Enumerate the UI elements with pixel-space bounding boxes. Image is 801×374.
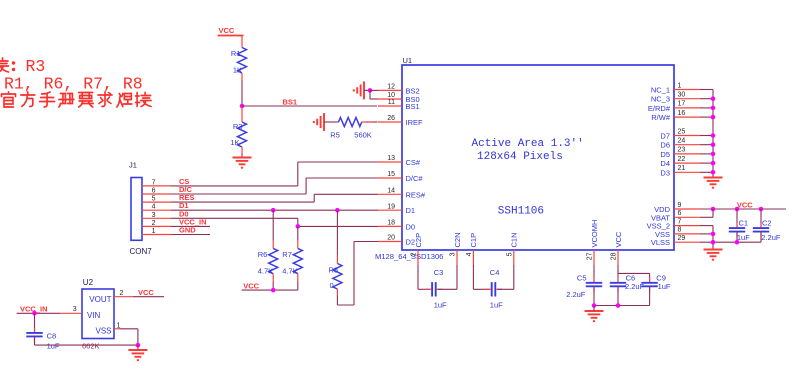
svg-text:2.2uF: 2.2uF	[566, 290, 586, 299]
svg-text:D4: D4	[660, 159, 670, 168]
svg-text:7: 7	[678, 218, 682, 225]
U1 pin 19 D1	[378, 209, 402, 211]
svg-text:2: 2	[152, 220, 156, 227]
svg-text:10: 10	[387, 92, 395, 99]
U1 pin 11 BS1	[378, 105, 402, 107]
capacitor C5 2.2uF	[593, 265, 595, 283]
svg-text:17: 17	[678, 101, 686, 108]
svg-text:VSS: VSS	[95, 327, 111, 336]
U1 pin 9 VDD	[674, 208, 700, 210]
svg-text:C2P: C2P	[414, 233, 423, 248]
svg-text:CS#: CS#	[406, 158, 421, 167]
svg-text:20: 20	[387, 235, 395, 242]
svg-text:R/W#: R/W#	[651, 113, 671, 122]
power rail VCC (R6/R7 bottom)	[242, 289, 298, 291]
svg-text:E/RD#: E/RD#	[648, 104, 671, 113]
svg-text:9: 9	[678, 202, 682, 209]
svg-text:C5: C5	[577, 274, 587, 283]
svg-text:28: 28	[611, 252, 618, 260]
svg-text:C8: C8	[47, 331, 57, 340]
svg-text:D3: D3	[660, 168, 670, 177]
capacitor C2 2.2uF	[759, 207, 764, 212]
U1 pin 26 IREF	[378, 121, 402, 123]
U1 pin 30 NC_3	[674, 98, 700, 100]
svg-text:1uF: 1uF	[434, 301, 447, 310]
svg-text:11: 11	[388, 99, 395, 106]
J1 pin 5 net RES	[142, 201, 171, 203]
svg-text:BS1: BS1	[406, 102, 420, 111]
wire R5 to U1 pin 26 IREF	[362, 121, 366, 123]
U1 pin 4 C1P	[472, 250, 474, 265]
svg-text:2: 2	[120, 290, 124, 297]
svg-text:27: 27	[587, 252, 594, 260]
node bus junction	[711, 170, 716, 175]
svg-text:15: 15	[387, 171, 395, 178]
svg-text:IREF: IREF	[406, 118, 424, 127]
wire net VCC_IN J1.2	[171, 225, 210, 227]
svg-text:25: 25	[678, 128, 686, 135]
node R6/VCC junction	[271, 288, 276, 293]
IC U1 SSH1106 controller body	[402, 65, 674, 250]
U2 pin 2 VOUT to VCC	[114, 296, 133, 298]
svg-text:VLSS: VLSS	[651, 238, 670, 247]
U1 pin 18 D0	[378, 225, 402, 227]
U1 pin 8 VSS	[674, 233, 700, 235]
svg-text:30: 30	[678, 92, 686, 99]
svg-text:1uF: 1uF	[737, 233, 750, 242]
wire bus NC/D pins to ground	[700, 89, 713, 91]
svg-text:18: 18	[387, 220, 395, 227]
svg-text:1uF: 1uF	[490, 301, 503, 310]
svg-text:560K: 560K	[354, 130, 372, 139]
power rail VCC (right)	[700, 208, 786, 210]
svg-text:19: 19	[387, 203, 395, 210]
U1 pin 13 CS#	[378, 161, 402, 163]
U1 pin 10 BS0	[378, 98, 402, 100]
ground (BS2/BS0) rotated	[363, 81, 365, 99]
svg-text:2.2uF: 2.2uF	[761, 233, 781, 242]
svg-text:C1P: C1P	[469, 233, 478, 248]
U1 pin 14 RES#	[378, 193, 402, 195]
svg-text:J1: J1	[129, 161, 137, 170]
svg-text:5: 5	[152, 196, 156, 203]
U1 pin 12 BS2	[378, 89, 402, 91]
capacitor C6 2.2uF	[617, 265, 619, 283]
node ground junction	[136, 343, 141, 348]
U1 pin 2 C2P	[417, 250, 419, 265]
wire R8 to U1 pin 20 D2	[336, 295, 338, 305]
svg-text:U2: U2	[83, 278, 94, 287]
wire VSS_2/VSS/VLSS to ground	[700, 225, 713, 227]
svg-text:24: 24	[678, 138, 686, 145]
node bus junction	[711, 115, 716, 120]
wire net BS1 to U1 pin 11	[242, 105, 377, 107]
svg-text:Active Area 1.3'': Active Area 1.3''	[472, 138, 584, 150]
svg-text:1uF: 1uF	[658, 282, 671, 291]
svg-text:6: 6	[152, 188, 156, 195]
svg-text:CON7: CON7	[130, 247, 153, 256]
svg-text:VCC: VCC	[138, 288, 154, 297]
U1 pin 24 D6	[674, 144, 700, 146]
ground (right bus)	[704, 177, 723, 179]
capacitor C3 1uF	[417, 265, 419, 289]
J1 pin 2 net VCC_IN	[142, 225, 171, 227]
U1 pin 15 D/C#	[378, 177, 402, 179]
svg-text:1: 1	[678, 82, 682, 89]
svg-text:VCC: VCC	[243, 281, 259, 290]
capacitor C1 1uF	[735, 207, 740, 212]
svg-text:2: 2	[411, 252, 418, 256]
svg-text:R6: R6	[258, 250, 268, 259]
ground (U2/C8)	[137, 345, 139, 349]
J1 pin 3 net D0	[142, 217, 171, 219]
svg-text:4: 4	[152, 204, 156, 211]
svg-text:D1: D1	[406, 206, 416, 215]
J1 pin 1 net GND	[142, 234, 171, 236]
svg-text:SSH1106: SSH1106	[498, 206, 544, 218]
U1 pin 22 D4	[674, 162, 700, 164]
svg-text:C4: C4	[490, 268, 500, 277]
U1 pin 3 C2N	[456, 250, 458, 265]
wire net RES J1.5 to U1 pin 14 RES#	[171, 201, 314, 203]
resistor R5 560K	[339, 118, 362, 127]
svg-text:R5: R5	[330, 130, 340, 139]
svg-text:3: 3	[73, 306, 77, 313]
wire net CS J1.7 to U1 pin 13 CS#	[171, 185, 298, 187]
svg-text:VCC: VCC	[614, 231, 623, 247]
svg-text:6: 6	[678, 210, 682, 217]
regulator U2	[82, 289, 114, 339]
wire cap bottoms to ground	[594, 305, 650, 307]
ground (R5) rotated	[323, 113, 325, 131]
wire to pin 10 BS0	[369, 90, 371, 99]
node bus junction	[711, 161, 716, 166]
capacitor C9 1uF	[618, 272, 650, 274]
svg-text:128x64 Pixels: 128x64 Pixels	[477, 151, 563, 163]
wire net D/C J1.6 to U1 pin 15 D/C#	[171, 193, 306, 195]
svg-text:M128_64_SSD1306: M128_64_SSD1306	[375, 252, 443, 261]
node bus junction	[711, 106, 716, 111]
svg-text:1K: 1K	[233, 66, 242, 75]
svg-text:4: 4	[466, 252, 473, 256]
red annotation line 1 (partial)	[0, 58, 9, 72]
svg-text:3: 3	[450, 252, 457, 256]
U1 pin 17 E/RD#	[674, 107, 700, 109]
connector J1 CON7	[131, 178, 142, 241]
J1 pin 7 net CS	[142, 185, 171, 187]
svg-text:12: 12	[387, 84, 395, 91]
svg-text:7: 7	[152, 179, 156, 186]
capacitor C4 1uF	[472, 265, 474, 289]
svg-text:8: 8	[678, 227, 682, 234]
svg-text:R3: R3	[233, 122, 243, 131]
node VCC_IN/C8 junction	[32, 311, 37, 316]
svg-text:23: 23	[678, 147, 686, 154]
wire net D1 J1.4 to U1 pin 19 D1	[171, 209, 378, 211]
svg-text:VOUT: VOUT	[89, 295, 111, 304]
svg-text:22: 22	[678, 156, 686, 163]
svg-text:D5: D5	[660, 150, 670, 159]
U2 pin 3 VIN from VCC_IN	[60, 312, 82, 314]
svg-text:BS1: BS1	[283, 97, 298, 106]
svg-text:14: 14	[387, 188, 395, 195]
U1 pin 25 D7	[674, 135, 700, 137]
svg-text:0: 0	[330, 281, 334, 290]
node VDD/VBAT riser	[711, 207, 716, 212]
svg-text:VCC: VCC	[219, 26, 235, 35]
U1 pin 29 VLSS	[674, 241, 700, 243]
svg-text:C2N: C2N	[453, 232, 462, 247]
svg-text:D0: D0	[406, 222, 416, 231]
wire R1 to node BS1	[241, 80, 243, 106]
svg-text:5: 5	[506, 252, 513, 256]
svg-text:R1: R1	[231, 49, 241, 58]
resistor R6 4.7K	[272, 210, 274, 240]
node D1/R6 junction	[271, 208, 276, 213]
U1 pin 16 R/W#	[674, 116, 700, 118]
svg-text:662K: 662K	[82, 341, 100, 350]
svg-text:NC_3: NC_3	[651, 95, 670, 104]
J1 pin 4 net D1	[142, 209, 171, 211]
wire net GND J1.1	[171, 234, 210, 236]
U1 pin 28 VCC	[617, 250, 619, 265]
svg-text:U1: U1	[403, 56, 413, 65]
node BS1 junction	[240, 104, 245, 109]
svg-text:3: 3	[152, 212, 156, 219]
svg-text:4.7K: 4.7K	[282, 267, 297, 276]
U1 pin 7 VSS_2	[674, 225, 700, 227]
wire ground to R5	[324, 121, 339, 123]
U1 pin 27 VCOMH	[593, 250, 595, 265]
node bus junction	[711, 152, 716, 157]
svg-text:D7: D7	[660, 132, 670, 141]
U1 pin 23 D5	[674, 153, 700, 155]
svg-text:1: 1	[152, 228, 156, 235]
svg-text:29: 29	[678, 235, 686, 242]
resistor R8 0 ohm	[336, 210, 338, 254]
svg-text:D/C#: D/C#	[406, 174, 424, 183]
node D1/R8 junction	[335, 208, 340, 213]
wire to pin 12 BS2	[370, 89, 378, 91]
resistor R7 4.7K	[297, 226, 299, 240]
wire C1/C2 bottoms to VSS riser	[713, 241, 761, 243]
svg-text:C1N: C1N	[510, 232, 519, 247]
U1 pin 20 D2	[378, 241, 402, 243]
U1 pin 21 D3	[674, 171, 700, 173]
svg-text:C1: C1	[739, 218, 749, 227]
svg-text:4.7K: 4.7K	[258, 267, 273, 276]
U1 pin 6 VBAT	[674, 216, 700, 218]
svg-text:R8: R8	[329, 266, 339, 275]
ground (VSS)	[704, 249, 723, 251]
node D0/R7 junction	[296, 224, 301, 229]
node bus junction	[711, 133, 716, 138]
svg-text:1K: 1K	[230, 138, 239, 147]
svg-text:R7: R7	[282, 250, 292, 259]
svg-text:VIN: VIN	[87, 311, 101, 320]
wire VCC to R1	[241, 36, 243, 48]
wire C8 bottom to ground node	[35, 344, 138, 346]
svg-text:C2: C2	[762, 218, 772, 227]
svg-text:1uF: 1uF	[47, 341, 60, 350]
node BS2/BS0 junction	[368, 88, 373, 93]
resistor R1 1K	[238, 48, 247, 74]
svg-text:RES#: RES#	[406, 190, 426, 199]
red annotation line 3	[2, 92, 16, 107]
resistor R3 1K	[238, 122, 247, 147]
ground (below R3)	[233, 157, 252, 159]
svg-text:C3: C3	[434, 268, 444, 277]
U1 pin 5 C1N	[513, 250, 515, 265]
svg-text:D6: D6	[660, 141, 670, 150]
ground (C5/C6/C9)	[585, 310, 604, 312]
svg-text:R3: R3	[26, 57, 46, 76]
wire net D0 J1.3 to U1 pin 18 D0	[171, 217, 298, 219]
svg-text:16: 16	[678, 110, 686, 117]
U1 pin 1 NC_1	[674, 89, 700, 91]
svg-text:26: 26	[387, 115, 395, 122]
svg-text:R1, R6, R7, R8: R1, R6, R7, R8	[4, 74, 143, 93]
J1 pin 6 net D/C	[142, 193, 171, 195]
U2 pin 1 VSS to ground	[114, 328, 120, 330]
node bus junction	[711, 142, 716, 147]
svg-text:VCOMH: VCOMH	[590, 220, 599, 248]
node bus junction	[711, 96, 716, 101]
svg-text:VCC: VCC	[737, 201, 753, 210]
svg-text:NC_1: NC_1	[651, 86, 670, 95]
svg-text:21: 21	[678, 165, 686, 172]
svg-text:13: 13	[387, 155, 395, 162]
wire node to R3	[241, 106, 243, 122]
capacitor C8 1uF	[34, 313, 36, 333]
